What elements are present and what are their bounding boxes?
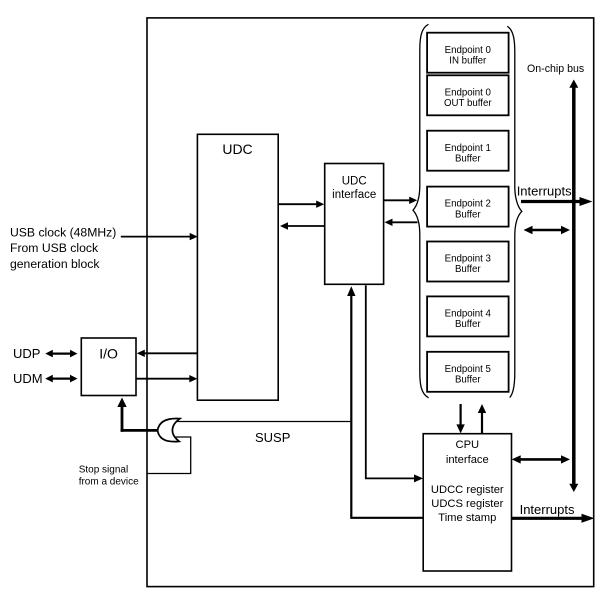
wire buffers to UDC interface arrow (385, 219, 418, 226)
wire stop signal loop (147, 437, 191, 474)
wire OR gate output to I/O (117, 398, 157, 432)
svg-text:UDC: UDC (342, 176, 367, 188)
block CPU interface (423, 434, 511, 571)
wire UDC to UDC interface arrow (278, 201, 324, 208)
svg-text:UDCS register: UDCS register (431, 498, 503, 510)
label Stop signal from a device (79, 465, 139, 488)
svg-text:Endpoint 0: Endpoint 0 (445, 87, 492, 98)
svg-text:from a device: from a device (79, 477, 139, 488)
buffer Endpoint 3 (427, 242, 509, 282)
wire UDC to I/O arrow (137, 350, 197, 357)
svg-text:interface: interface (446, 454, 489, 466)
svg-text:On-chip bus: On-chip bus (527, 63, 584, 75)
svg-text:Buffer: Buffer (455, 319, 481, 330)
svg-text:Stop signal: Stop signal (79, 465, 128, 476)
wire UDC interface to CPU interface (366, 285, 423, 482)
wire UDP double arrow (45, 350, 77, 358)
svg-text:Buffer: Buffer (455, 153, 481, 164)
svg-text:Endpoint 5: Endpoint 5 (445, 364, 491, 375)
svg-text:Buffer: Buffer (455, 209, 481, 220)
svg-text:Endpoint 2: Endpoint 2 (445, 199, 491, 210)
wire CPU interface to bus double arrow (512, 455, 570, 463)
svg-text:CPU: CPU (455, 439, 479, 451)
endpoint stack right brace (507, 26, 522, 397)
svg-text:interface: interface (332, 189, 376, 201)
block I/O (81, 338, 136, 396)
svg-text:UDP: UDP (13, 346, 40, 361)
svg-text:Time stamp: Time stamp (438, 512, 496, 524)
wire buffers to bus double arrow (524, 226, 571, 234)
svg-text:generation block: generation block (10, 257, 100, 271)
buffer Endpoint 4 (427, 296, 509, 336)
buffer Endpoint 0 OUT (427, 75, 509, 115)
svg-text:Endpoint 0: Endpoint 0 (445, 45, 492, 56)
svg-text:UDC: UDC (222, 141, 252, 157)
buffer Endpoint 5 (427, 352, 509, 392)
svg-text:Endpoint 3: Endpoint 3 (445, 254, 491, 265)
svg-text:I/O: I/O (99, 346, 118, 362)
label USB clock (10, 225, 116, 270)
svg-text:Endpoint 4: Endpoint 4 (445, 309, 492, 320)
svg-text:Buffer: Buffer (455, 264, 481, 275)
wire USB clock arrow (121, 233, 198, 240)
wire I/O to UDC arrow (136, 375, 197, 382)
wire UDC interface to buffers arrow (384, 197, 418, 204)
wire interrupts top arrow (521, 197, 593, 206)
svg-text:Buffer: Buffer (455, 375, 481, 386)
wire buffers to CPU interface down arrow (456, 404, 464, 433)
wire UDM double arrow (45, 375, 77, 383)
svg-text:Interrupts: Interrupts (520, 502, 575, 517)
block UDC interface (325, 164, 384, 285)
svg-text:Endpoint 1: Endpoint 1 (445, 143, 491, 154)
buffer Endpoint 1 (427, 131, 509, 171)
wire CPU interface to buffers up arrow (478, 404, 486, 434)
wire interrupts bottom arrow (512, 514, 595, 523)
svg-text:UDM: UDM (13, 371, 43, 386)
svg-text:USB clock (48MHz): USB clock (48MHz) (10, 225, 116, 239)
svg-text:From USB clock: From USB clock (10, 241, 99, 255)
wire UDC interface to UDC arrow (280, 222, 325, 229)
endpoint stack left brace (413, 24, 429, 398)
buffer Endpoint 0 IN (427, 33, 509, 73)
svg-text:Interrupts: Interrupts (517, 184, 572, 199)
svg-text:OUT buffer: OUT buffer (444, 98, 492, 109)
wire CPU interface SUSP to UDC interface (347, 286, 423, 518)
OR gate (158, 418, 180, 441)
svg-text:UDCC register: UDCC register (431, 484, 504, 496)
svg-text:SUSP: SUSP (255, 430, 290, 445)
svg-text:IN buffer: IN buffer (449, 55, 487, 66)
on-chip bus line (569, 80, 578, 493)
chip boundary (147, 18, 594, 587)
block UDC (197, 134, 278, 400)
buffer Endpoint 2 (427, 187, 509, 227)
wire SUSP (168, 421, 351, 423)
